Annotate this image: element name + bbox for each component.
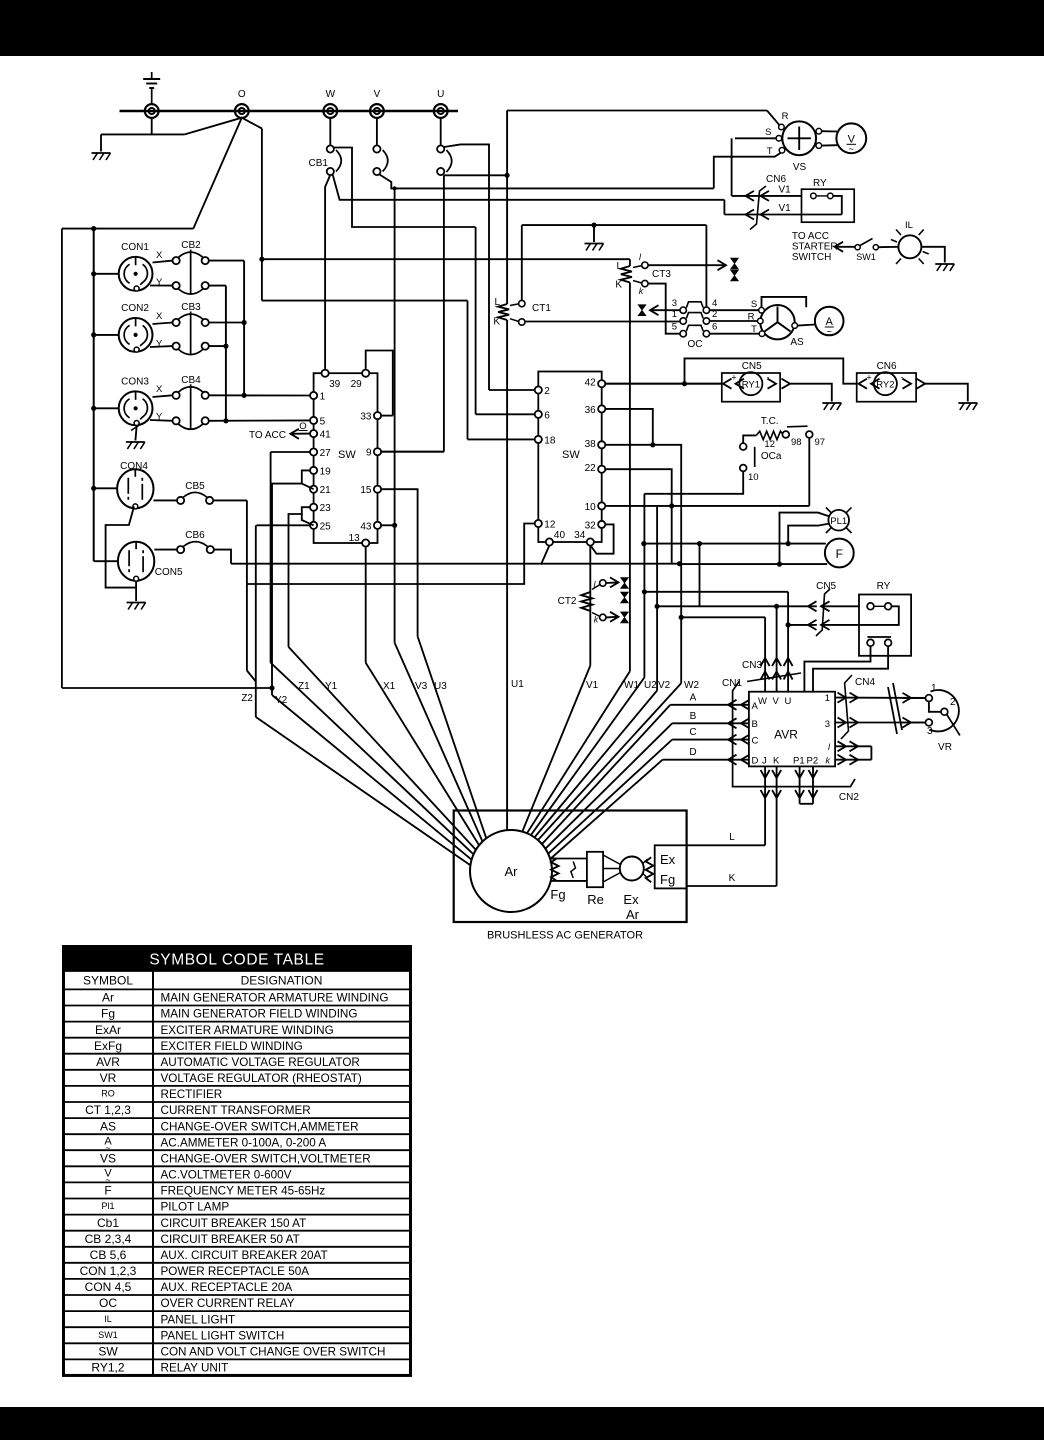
ground symbol on sense line: [585, 244, 604, 251]
wire X bus: [243, 261, 245, 396]
svg-text:CT3: CT3: [652, 269, 671, 280]
pin 2 of SW right: [535, 386, 551, 397]
label VR 3: [927, 726, 933, 737]
ground symbol RY2: [958, 403, 977, 410]
svg-text:O: O: [238, 89, 246, 100]
svg-text:T: T: [767, 146, 773, 157]
pin 19 of SW left: [310, 466, 331, 477]
transformer CT3 l terminal: [633, 262, 648, 268]
connector CN4 label: [855, 677, 875, 688]
label TO ACC: [792, 231, 829, 242]
svg-text:4: 4: [712, 298, 717, 309]
wire VS to V upper: [822, 130, 838, 132]
wire A horizontal: [670, 704, 749, 706]
wire K run: [687, 885, 777, 887]
svg-text:RELAY UNIT: RELAY UNIT: [161, 1362, 229, 1375]
AVR pin P2 label: [807, 756, 819, 767]
svg-text:S: S: [751, 299, 757, 310]
table row A: [104, 1135, 326, 1153]
table row VR: [100, 1071, 362, 1085]
svg-text:5: 5: [320, 416, 326, 427]
label U1: [511, 679, 524, 690]
pin 38 of SW right: [585, 439, 606, 450]
svg-text:IL: IL: [905, 220, 913, 231]
relay RY contact: [811, 193, 833, 199]
wire CN5 lower east: [821, 624, 859, 626]
label Z1: [298, 681, 310, 692]
wire pin41 arrow: [290, 429, 310, 439]
wire U supply branch: [444, 144, 489, 390]
svg-text:AVR: AVR: [774, 728, 798, 742]
wire CON1 X lead: [153, 261, 173, 263]
wire pin43 east (V3): [381, 524, 395, 526]
varistor z mark: [571, 862, 576, 879]
wire D diagonal: [550, 760, 662, 859]
wire pin9 horizontal: [381, 451, 444, 453]
svg-text:SYMBOL: SYMBOL: [83, 974, 133, 988]
terminal TC 12 lead: [740, 443, 747, 450]
pin 32 of SW right: [585, 520, 606, 531]
wire CON5 out: [154, 549, 177, 551]
node rail CON3 tap: [91, 406, 96, 411]
switch VS label: [793, 162, 807, 173]
node U2-CN3 junction: [642, 589, 647, 594]
wire CT3 l arrow line: [648, 260, 726, 270]
svg-text:15: 15: [360, 485, 372, 496]
wire CN5R lower link: [788, 624, 817, 626]
ammeter A body: [815, 307, 844, 336]
label L: [729, 832, 735, 843]
connector CN2 arrows K: [772, 770, 781, 798]
wire pin34 drop (V1): [589, 545, 591, 665]
label O pin41: [299, 421, 308, 432]
svg-text:P1: P1: [793, 756, 805, 767]
wire CN5 upper east: [821, 605, 859, 607]
svg-text:6: 6: [544, 410, 550, 421]
label Z2: [241, 693, 253, 704]
table row CON 1,2,3: [80, 1264, 310, 1278]
relay OC contact 3-4: [680, 302, 710, 314]
svg-text:k: k: [639, 286, 644, 296]
svg-text:TO ACC: TO ACC: [792, 231, 829, 242]
connector CN3 arrows V: [772, 658, 781, 680]
svg-text:SW: SW: [338, 449, 356, 461]
wire CN5 upper arrowheads: [808, 601, 830, 611]
wire RY1 feed: [605, 383, 722, 385]
table row CON 4,5: [85, 1280, 293, 1294]
wire RY lower left to AVR: [804, 646, 870, 692]
pin 41 of SW left: [310, 430, 331, 441]
pilot lamp PL1 body: [828, 510, 849, 531]
node U label: [437, 89, 444, 100]
cable marker CT2 l: [621, 578, 629, 589]
pin 4 label: [712, 298, 717, 309]
wire pin36 east: [605, 409, 653, 445]
connector CN3 blade: [747, 673, 801, 682]
svg-text:1: 1: [825, 693, 830, 704]
wire CT3 k run: [648, 284, 680, 334]
table row RO: [101, 1088, 222, 1101]
svg-text:CT2: CT2: [558, 596, 577, 607]
svg-text:EXCITER FIELD WINDING: EXCITER FIELD WINDING: [161, 1040, 303, 1053]
wire VS R feed: [507, 110, 767, 112]
wire 97 drop to pin10 line: [808, 438, 810, 506]
connector CN2 arrows P2: [809, 770, 818, 798]
wire earth stem: [151, 88, 153, 104]
terminal O: [235, 104, 249, 118]
svg-text:CN3: CN3: [742, 660, 762, 671]
node X bus CB3 junction: [242, 320, 247, 325]
svg-text:CIRCUIT BREAKER 150 AT: CIRCUIT BREAKER 150 AT: [161, 1217, 307, 1230]
bottom margin bar: [0, 1407, 1044, 1440]
table row RY1,2: [91, 1361, 228, 1375]
svg-text:CB3: CB3: [181, 302, 201, 313]
wire W supply drop to pin6: [475, 227, 477, 414]
thermal contact TC label: [761, 416, 779, 427]
wire Ar to Fg bottom: [550, 880, 556, 882]
svg-text:10: 10: [748, 472, 759, 483]
svg-text:~: ~: [827, 327, 832, 337]
connector CN5 blade: [816, 589, 830, 636]
label 97: [815, 437, 826, 448]
AVR pin W label: [758, 696, 767, 707]
svg-text:IL: IL: [104, 1314, 112, 1324]
wire to acc arrow: [835, 242, 856, 252]
circuit breaker CB4: [173, 375, 209, 429]
pin 18 of SW right: [535, 435, 556, 446]
wire ground tap stem: [593, 225, 595, 242]
receptacle CON1: [119, 242, 153, 291]
svg-text:V1: V1: [779, 185, 792, 196]
svg-text:CT1: CT1: [532, 303, 551, 314]
relay RY1 minus: [767, 373, 770, 383]
wire neutral vertical: [261, 129, 263, 301]
svg-text:CN2: CN2: [839, 792, 859, 803]
svg-text:ExAr: ExAr: [95, 1023, 121, 1037]
svg-text:W: W: [326, 89, 336, 100]
node AS S label: [751, 299, 757, 310]
svg-text:+: +: [866, 373, 871, 383]
terminal AS R: [758, 318, 764, 324]
svg-text:Ex: Ex: [660, 852, 676, 867]
svg-text:BRUSHLESS AC GENERATOR: BRUSHLESS AC GENERATOR: [487, 930, 643, 942]
relay RY2 minus: [901, 373, 904, 383]
label Y1: [325, 681, 338, 692]
relay RY2 body: [874, 372, 897, 395]
wire CB2 X east: [209, 260, 245, 262]
svg-text:41: 41: [320, 430, 332, 441]
connector CN3 arrows U: [784, 658, 793, 680]
wire ExAr to ExFg: [643, 859, 648, 878]
svg-text:K: K: [493, 317, 500, 328]
svg-text:V: V: [773, 696, 780, 707]
wire O diagonal to neutral rail: [242, 118, 262, 129]
connector double slash: [888, 683, 902, 734]
svg-text:19: 19: [320, 466, 332, 477]
svg-text:SW1: SW1: [98, 1330, 118, 1340]
regulator AVR box: [749, 692, 835, 767]
table row Fg: [101, 1007, 357, 1021]
wire pin2 horizontal: [489, 389, 535, 391]
label VR 1: [931, 683, 937, 694]
node rail-Y2 junction: [269, 685, 274, 690]
wire AS top loop: [762, 297, 807, 308]
wire F upper lead: [644, 543, 826, 545]
breaker CB1 pole U: [437, 145, 452, 175]
AVR pin k label: [826, 756, 831, 766]
label V2: [658, 680, 671, 691]
connector CN1 arrows row B: [728, 718, 750, 728]
svg-text:OC: OC: [99, 1296, 117, 1310]
transformer CT1 l riser: [521, 225, 523, 300]
rheostat VR wiper: [947, 715, 960, 736]
label W2: [684, 680, 699, 691]
transformer CT1 L label: [494, 297, 500, 308]
current transformer CT3 coil: [621, 266, 632, 283]
node X bus end junction: [242, 393, 247, 398]
pin 6 label: [712, 322, 717, 333]
node W2-CN3 junction: [679, 615, 684, 620]
wire pin15 east (U3): [381, 489, 418, 636]
svg-text:CN1: CN1: [722, 678, 742, 689]
terminal 97: [806, 431, 813, 438]
connector CN6 label right: [877, 361, 897, 372]
AVR pin K label: [773, 756, 780, 767]
wire VR row3: [902, 722, 926, 724]
svg-text:CON5: CON5: [155, 567, 183, 578]
panel light IL body: [898, 235, 921, 258]
wire neutral to pin18 run: [262, 300, 468, 302]
wire C diagonal: [548, 740, 672, 854]
label Y CON2: [156, 339, 163, 350]
wire Y2 diagonal: [272, 695, 472, 860]
label SWITCH: [792, 252, 831, 263]
wire V1 upper arrowheads: [746, 191, 770, 201]
node V2-CN3 junction: [655, 604, 660, 609]
relay OC contact 1-2: [680, 313, 710, 325]
relay RY2 left arrows: [859, 379, 880, 389]
wire Z2 diagonal: [256, 717, 471, 865]
generator box: [454, 811, 687, 923]
svg-text:OC: OC: [688, 339, 703, 350]
transformer CT1 K label: [493, 317, 500, 328]
panel light switch SW1: [855, 239, 878, 250]
connector CN3 arrows W: [761, 658, 770, 680]
svg-text:CB 5,6: CB 5,6: [90, 1248, 127, 1262]
ground symbol CON3: [126, 442, 145, 449]
node Y bus CB3 junction: [223, 344, 228, 349]
svg-text:AVR: AVR: [96, 1055, 120, 1069]
wire V1 lower line: [724, 214, 841, 216]
svg-text:39: 39: [329, 379, 341, 390]
node ground tap junction: [591, 223, 596, 228]
svg-text:CB2: CB2: [181, 240, 201, 251]
switch VS cross: [788, 127, 811, 150]
svg-text:1: 1: [931, 683, 937, 694]
node CB6-W2 junction: [677, 561, 682, 566]
wire pin19-21 bracket: [302, 470, 314, 489]
wire CT2 l arrow: [606, 577, 619, 587]
node rail CON4 tap: [91, 486, 96, 491]
table row SW: [98, 1345, 385, 1359]
label D: [689, 747, 696, 758]
panel light IL rays: [891, 230, 929, 265]
wire pin34-32 bracket: [591, 524, 613, 553]
pin 2 label: [712, 309, 717, 320]
wire Re to ExAr fan: [603, 855, 620, 882]
svg-text:Ar: Ar: [505, 864, 519, 879]
wire pin33 east: [381, 415, 393, 417]
ground symbol top left: [92, 153, 111, 160]
svg-text:CN6: CN6: [877, 361, 897, 372]
node neutral-CT3 junction: [259, 257, 264, 262]
pin 12 of SW right: [535, 520, 556, 531]
change-over switch AS body: [760, 305, 794, 339]
wire pin18 drop: [467, 301, 469, 440]
pin 1 label: [672, 309, 677, 320]
wire CON3 X lead: [153, 395, 173, 397]
svg-text:Pl1: Pl1: [101, 1201, 114, 1211]
node 22-10 junction: [669, 503, 674, 508]
wire W2 to CN3: [681, 616, 765, 618]
svg-text:F: F: [836, 547, 843, 561]
svg-text:U: U: [785, 696, 792, 707]
svg-text:3: 3: [672, 298, 677, 309]
svg-text:SW: SW: [562, 449, 580, 461]
table row OC: [99, 1296, 295, 1310]
svg-text:CHANGE-OVER SWITCH,AMMETER: CHANGE-OVER SWITCH,AMMETER: [161, 1120, 359, 1133]
exciter armature ExAr body: [620, 857, 644, 881]
label STARTER: [792, 242, 838, 253]
wire S riser: [731, 138, 733, 196]
relay OC label: [688, 339, 703, 350]
svg-text:C: C: [689, 727, 696, 738]
svg-text:98: 98: [791, 437, 802, 448]
svg-text:Z1: Z1: [298, 681, 310, 692]
frequency meter F body: [825, 539, 854, 568]
terminal AS T: [759, 331, 765, 337]
wire bottom rail run: [62, 687, 272, 689]
wire P1-P2 loop: [800, 803, 813, 805]
ground terminal: [145, 104, 159, 118]
svg-text:POWER RECEPTACLE 50A: POWER RECEPTACLE 50A: [161, 1265, 310, 1278]
relay RY1 left arrows: [723, 379, 744, 389]
svg-text:VR: VR: [938, 742, 952, 753]
wire AS to A: [798, 325, 816, 326]
svg-text:-: -: [767, 373, 770, 383]
node U2 branch junction: [697, 541, 702, 546]
table row AVR: [96, 1055, 360, 1069]
node rail CON2 tap: [91, 332, 96, 337]
node Y bus end junction: [223, 418, 228, 423]
wire CT2 k arrow: [606, 612, 619, 622]
receptacle CON5: [118, 542, 183, 582]
svg-text:EXCITER ARMATURE WINDING: EXCITER ARMATURE WINDING: [161, 1024, 334, 1037]
svg-text:T: T: [751, 324, 757, 335]
terminal AS S: [759, 307, 765, 313]
svg-text:21: 21: [320, 485, 332, 496]
svg-text:SW: SW: [98, 1345, 118, 1359]
receptacle CON3: [119, 377, 153, 426]
node V1 lower label: [779, 203, 792, 214]
terminal VR 1: [926, 695, 933, 702]
wire left rail: [61, 229, 63, 688]
relay RY right label: [877, 581, 891, 592]
table row IL: [104, 1313, 235, 1326]
table row SW1: [98, 1329, 284, 1342]
wire W1 diagonal: [527, 671, 630, 833]
connector CN4 arrows row-l: [838, 741, 859, 751]
wire RY2 to ground: [925, 384, 968, 402]
wire CB6 east: [214, 550, 231, 564]
wire W2 diagonal: [538, 683, 681, 840]
switch AS label: [790, 337, 804, 348]
label X CON1: [156, 250, 163, 261]
svg-text:18: 18: [544, 435, 556, 446]
wire OCa-10 to U2: [644, 471, 743, 493]
wire U load drop to pin9: [443, 175, 445, 451]
label V3: [415, 681, 428, 692]
table row AS: [100, 1119, 359, 1133]
transformer CT3 label: [652, 269, 671, 280]
svg-text:T.C.: T.C.: [761, 416, 779, 427]
svg-text:+: +: [731, 373, 736, 383]
label U3: [434, 681, 447, 692]
wire CON3 ground lead: [131, 425, 140, 441]
svg-text:6: 6: [712, 322, 717, 333]
relay RY label: [813, 178, 827, 189]
svg-text:C: C: [752, 736, 759, 747]
svg-text:43: 43: [360, 521, 372, 532]
wire U2 diagonal: [531, 678, 645, 836]
wire W2-F link: [678, 563, 680, 565]
wire W load to pin39: [325, 175, 330, 370]
wire V terminal to CB1: [376, 118, 378, 146]
circuit breaker CB5: [177, 481, 213, 504]
svg-text:S: S: [765, 127, 771, 138]
wire CT1 k run to OC1: [525, 321, 680, 323]
svg-text:STARTER: STARTER: [792, 242, 838, 253]
node 36-38 junction: [650, 442, 655, 447]
svg-text:K: K: [773, 756, 780, 767]
table row Pl1: [101, 1201, 229, 1214]
wire OC4 to AS S: [710, 309, 759, 311]
transformer CT2 k italic label: [594, 615, 599, 625]
exciter field box: [655, 845, 687, 888]
svg-text:38: 38: [585, 439, 597, 450]
wire O to ground diagonal: [185, 118, 242, 135]
wire CN3 W wire: [764, 617, 766, 691]
svg-text:CB4: CB4: [181, 375, 201, 386]
svg-text:22: 22: [585, 463, 597, 474]
label K: [729, 873, 736, 884]
transformer CT1 l terminal: [510, 300, 525, 306]
svg-text:PILOT LAMP: PILOT LAMP: [161, 1201, 230, 1214]
connector CN4 arrows row1: [838, 693, 912, 703]
wire Fg to Re top: [557, 858, 587, 860]
svg-text:CON 1,2,3: CON 1,2,3: [80, 1264, 137, 1278]
relay RY1 right arrows: [768, 379, 791, 389]
pin 9 of SW left: [366, 448, 381, 459]
svg-text:F: F: [104, 1184, 111, 1198]
svg-text:Fg: Fg: [101, 1007, 115, 1021]
relay RY1 plus: [731, 373, 736, 383]
terminal U: [434, 104, 448, 118]
connector CN1 label: [722, 678, 742, 689]
svg-text:U: U: [437, 89, 444, 100]
wire CON4 out: [154, 499, 178, 501]
wire CON2 Y lead: [150, 345, 173, 348]
